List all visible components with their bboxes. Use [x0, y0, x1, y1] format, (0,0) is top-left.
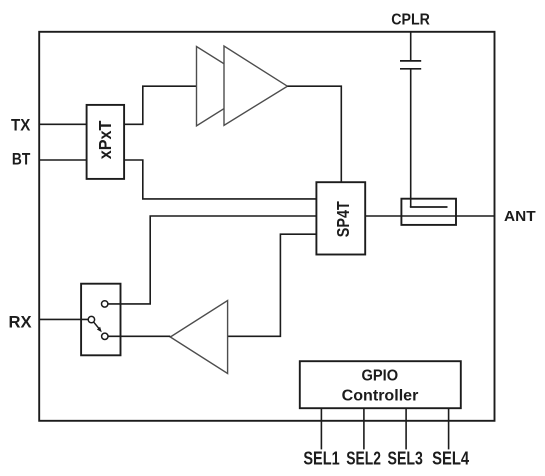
- wire TX input: [39, 123, 86, 125]
- wire SEL2: [363, 408, 365, 449]
- power amplifier A2 (front triangle): [224, 46, 287, 125]
- svg-text:CPLR: CPLR: [391, 12, 430, 29]
- xPxT switch block U1: [87, 105, 125, 179]
- GPIO controller block U3: [300, 361, 461, 408]
- svg-text:Controller: Controller: [342, 388, 419, 405]
- wire SEL3: [405, 408, 407, 449]
- svg-text:SEL1: SEL1: [303, 449, 339, 469]
- svg-text:SEL2: SEL2: [346, 449, 381, 469]
- svg-text:GPIO: GPIO: [362, 368, 399, 385]
- wire LNA output to switch bottom throw: [109, 335, 171, 337]
- wire SP4T to LNA input: [228, 234, 317, 336]
- wire SEL4: [448, 408, 450, 449]
- svg-text:SP4T: SP4T: [333, 201, 353, 237]
- wire SEL1: [320, 408, 322, 449]
- coupler coupled line: [411, 206, 448, 207]
- wire SP4T to ANT through coupler: [365, 215, 494, 217]
- svg-text:BT: BT: [12, 149, 31, 168]
- wire xPxT BT output to SP4T: [124, 160, 316, 199]
- svg-text:ANT: ANT: [504, 208, 536, 225]
- capacitor C1 bottom plate: [400, 68, 421, 70]
- wire RX input to switch pole: [39, 318, 88, 320]
- wire amplifier output to SP4T top: [287, 86, 341, 182]
- svg-text:SEL4: SEL4: [432, 449, 469, 469]
- wire xPxT TX output to amplifier input: [124, 86, 196, 124]
- wire capacitor to coupler coupled line: [410, 70, 412, 208]
- svg-text:TX: TX: [11, 116, 31, 135]
- wire SP4T to switch top throw: [108, 216, 316, 304]
- switch pole contact: [88, 316, 94, 322]
- svg-text:SEL3: SEL3: [388, 449, 423, 469]
- wire BT input: [39, 159, 86, 161]
- svg-text:xPxT: xPxT: [95, 120, 115, 159]
- LNA amplifier A3 (receive): [170, 301, 227, 374]
- switch lever with arrowhead: [94, 322, 102, 332]
- svg-text:RX: RX: [8, 313, 32, 332]
- RX bypass switch box S1: [81, 284, 120, 356]
- power amplifier A1 (rear triangle): [197, 47, 260, 126]
- switch top throw contact: [102, 301, 108, 307]
- switch bottom throw contact: [102, 333, 108, 339]
- SP4T switch block U2: [316, 182, 365, 254]
- outer module boundary box: [39, 32, 494, 421]
- wire CPLR port to capacitor: [410, 32, 412, 60]
- coupler box: [401, 199, 456, 225]
- capacitor C1 top plate: [400, 60, 421, 62]
